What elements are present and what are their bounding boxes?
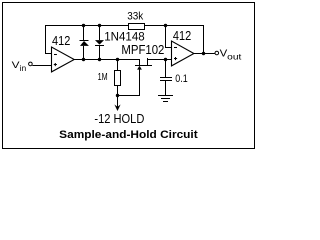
svg-text:412: 412 [173,29,191,43]
svg-text:out: out [227,52,242,62]
svg-text:1M: 1M [98,72,108,83]
svg-text:Sample-and-Hold Circuit: Sample-and-Hold Circuit [59,129,198,141]
svg-text:0.1: 0.1 [175,73,187,85]
svg-text:in: in [20,63,27,73]
svg-text:MPF102: MPF102 [121,42,164,57]
svg-text:412: 412 [52,34,70,48]
svg-text:33k: 33k [127,11,143,23]
svg-text:-12 HOLD: -12 HOLD [94,112,144,126]
